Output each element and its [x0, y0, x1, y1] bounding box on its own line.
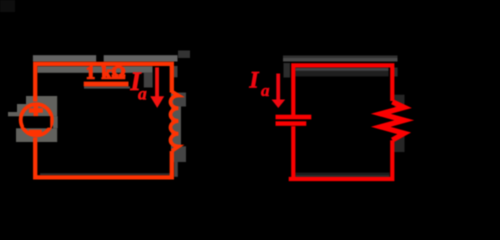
black label box over source circle	[24, 116, 50, 127]
svg-text:a: a	[138, 83, 147, 103]
grey strip inside right circuit top	[296, 68, 389, 71]
grey patch below inductor	[172, 146, 186, 162]
inductor L1 (four left-bulging arcs)	[171, 92, 179, 152]
wire: right circuit loop lower (right lower vertical, bottom, left lower vertical)	[289, 126, 393, 179]
svg-text:1: 1	[86, 63, 95, 83]
grey strip inside right circuit bottom	[296, 173, 390, 175]
grey trim right of lower right wire	[174, 162, 178, 177]
grey block left of right-circuit top corner	[284, 63, 291, 78]
svg-text:Ω: Ω	[112, 63, 126, 83]
grey block behind source (staircase of text lines)	[26, 96, 57, 104]
wire: left circuit loop lower (right lower vertical, bottom, left lower vertical)	[35, 138, 172, 178]
resistor R1 bar (1 kOhm)	[84, 82, 129, 87]
faint grey patch beyond band end	[178, 51, 190, 59]
grey strip under resistor bar	[84, 86, 130, 88]
svg-text:a: a	[261, 81, 270, 100]
capacitor C1 bottom plate	[276, 121, 307, 126]
black notch over top wire band	[96, 54, 103, 62]
resistor R2 zigzag	[381, 102, 404, 140]
wire: right circuit loop upper (left upper vertical, top, right upper vertical)	[293, 65, 392, 115]
grey column behind inductor	[171, 93, 181, 163]
grey patch below resistor R2	[394, 136, 405, 152]
voltage source VS circle	[21, 104, 52, 135]
grey text band left A	[33, 55, 96, 61]
svg-text:k: k	[102, 63, 112, 83]
wire: left circuit loop upper (left vertical, top, right upper vertical)	[35, 64, 172, 102]
grey block beside I_a label	[144, 72, 153, 87]
grey strip right of upper-right wire	[174, 66, 178, 77]
current arrow I_a down (right circuit)	[276, 74, 280, 101]
faint corner block	[0, 0, 15, 12]
grey text band right (above, lighter lower half)	[283, 58, 398, 62]
svg-text:I: I	[249, 68, 260, 93]
grey trim above bottom wire	[40, 173, 170, 175]
grey text band right (above, darker top half)	[283, 56, 398, 59]
current arrow I_a down (left circuit)	[155, 67, 159, 96]
capacitor C1 top plate	[276, 115, 312, 120]
grey strip under top wire	[38, 66, 153, 73]
grey strip right of right-circuit top corner	[394, 68, 398, 77]
grey patch above inductor	[174, 93, 187, 107]
voltage source minus sign	[29, 130, 42, 135]
grey patch above resistor R2	[395, 95, 405, 108]
voltage source plus sign	[29, 104, 43, 117]
grey text band left B	[104, 55, 178, 61]
